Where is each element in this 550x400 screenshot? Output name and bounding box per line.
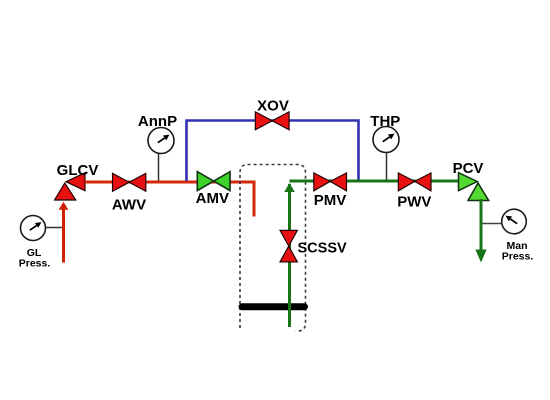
valve AWV (red gate valve) bbox=[113, 173, 146, 191]
valve XOV (red gate valve) bbox=[255, 112, 289, 130]
gauge GL Press. bbox=[21, 216, 46, 241]
wire: AnnP gauge stem bbox=[158, 153, 160, 181]
svg-text:AMV: AMV bbox=[196, 190, 229, 207]
svg-text:AnnP: AnnP bbox=[138, 113, 177, 130]
svg-text:Press.: Press. bbox=[19, 258, 51, 270]
valve PCV (green angle choke) bbox=[459, 173, 489, 201]
label GL Press. bbox=[19, 247, 51, 270]
wire: green flowline (wellhead to PCV) bbox=[290, 180, 461, 183]
wire: THP gauge stem bbox=[386, 152, 388, 180]
svg-text:SCSSV: SCSSV bbox=[298, 240, 347, 256]
wire: production tubing (green vertical) bbox=[288, 184, 291, 327]
wire: gas-lift riser (red vertical) bbox=[62, 208, 65, 263]
label Man Press. bbox=[502, 240, 534, 263]
arrowhead: production flow up bbox=[284, 183, 295, 192]
arrowhead: gas-lift flow up bbox=[59, 202, 69, 210]
valve PMV (red gate valve) bbox=[314, 173, 347, 191]
svg-text:PCV: PCV bbox=[453, 160, 484, 177]
svg-text:PMV: PMV bbox=[314, 192, 347, 209]
wire: blue annulus crossover loop bbox=[187, 121, 359, 182]
packer (black bar) bbox=[242, 303, 305, 310]
svg-text:GLCV: GLCV bbox=[57, 162, 99, 179]
svg-text:Press.: Press. bbox=[502, 251, 534, 263]
wire: Man gauge connector bbox=[482, 223, 502, 225]
svg-text:XOV: XOV bbox=[257, 98, 289, 115]
svg-text:THP: THP bbox=[370, 113, 400, 130]
gauge Man Press. bbox=[502, 209, 527, 234]
well envelope (dashed tubing outline) bbox=[240, 165, 306, 332]
valve GLCV (angle valve, red) bbox=[55, 173, 86, 200]
gauge THP bbox=[373, 127, 399, 153]
valve AMV (green gate valve) bbox=[197, 172, 230, 191]
svg-text:PWV: PWV bbox=[397, 193, 431, 210]
gauge AnnP bbox=[148, 128, 174, 154]
arrowhead: export flow down bbox=[475, 250, 486, 263]
wire: red flowline (GLCV to well) bbox=[85, 182, 254, 217]
wire: GL gauge connector bbox=[46, 227, 63, 229]
valve PWV (red gate valve) bbox=[398, 173, 431, 191]
valve SCSSV (red, vertical) bbox=[280, 230, 297, 262]
wire: export line down (green) bbox=[480, 199, 483, 251]
svg-text:AWV: AWV bbox=[112, 197, 146, 214]
